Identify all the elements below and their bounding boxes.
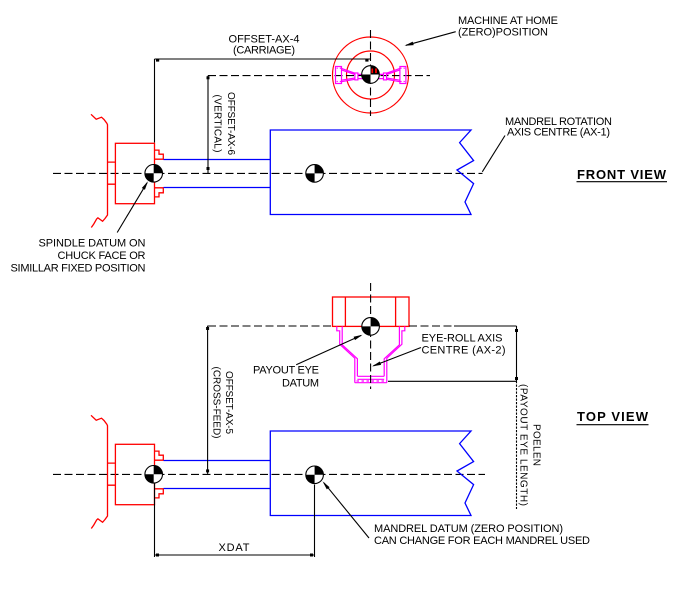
svg-text:(VERTICAL): (VERTICAL)	[212, 95, 223, 153]
payout eye horizontal centerline	[208, 75, 430, 77]
datum at payout eye centre (front)	[362, 66, 380, 84]
datum at chuck face (top)	[145, 466, 163, 484]
label OFFSET-AX-5 (CROSS-FEED) rotated	[223, 371, 234, 434]
leader payout eye datum	[296, 336, 361, 365]
svg-text:SIMILLAR FIXED POSITION: SIMILLAR FIXED POSITION	[11, 263, 146, 275]
svg-text:AXIS CENTRE (AX-1): AXIS CENTRE (AX-1)	[507, 127, 610, 139]
leader machine at home	[406, 32, 456, 46]
svg-text:OFFSET-AX-6: OFFSET-AX-6	[225, 92, 236, 155]
spindle axis centerline (front)	[53, 172, 483, 174]
svg-text:OFFSET-AX-5: OFFSET-AX-5	[223, 371, 234, 434]
payout eye funnel right (top view)	[384, 326, 405, 382]
spindle axis centerline (top)	[53, 473, 485, 475]
svg-text:EYE-ROLL AXIS: EYE-ROLL AXIS	[422, 333, 503, 345]
payout eye roller assembly right	[375, 67, 406, 84]
payout eye vertical centerline	[370, 30, 372, 116]
svg-text:CENTRE (AX-2): CENTRE (AX-2)	[422, 345, 506, 357]
svg-text:DATUM: DATUM	[282, 378, 319, 390]
svg-text:XDAT: XDAT	[219, 542, 250, 554]
svg-text:PAYOUT EYE: PAYOUT EYE	[253, 365, 319, 377]
datum at mandrel (front)	[306, 165, 324, 183]
payout eye circles (machine at home)	[333, 37, 409, 113]
POELEN bottom extension line	[388, 380, 517, 382]
payout eye funnel left (top view)	[337, 326, 358, 382]
svg-text:CAN CHANGE FOR EACH MANDREL US: CAN CHANGE FOR EACH MANDREL USED	[374, 535, 590, 547]
svg-text:CHUCK FACE OR: CHUCK FACE OR	[58, 250, 146, 262]
payout eye body (top view)	[333, 297, 410, 326]
svg-text:MANDREL DATUM (ZERO POSITION): MANDREL DATUM (ZERO POSITION)	[374, 523, 563, 535]
chuck, shaft and mandrel (top)	[91, 415, 474, 528]
svg-text:(CROSS-FEED): (CROSS-FEED)	[211, 367, 222, 439]
red guide marks at eye centre	[371, 69, 373, 74]
dimension POELEN line	[516, 326, 518, 381]
svg-text:SPINDLE DATUM ON: SPINDLE DATUM ON	[39, 238, 146, 250]
svg-text:TOP VIEW: TOP VIEW	[577, 409, 649, 424]
dimension OFFSET-AX-5 line	[207, 326, 209, 474]
svg-text:POELEN: POELEN	[531, 424, 542, 466]
svg-text:(ZERO)POSITION: (ZERO)POSITION	[458, 27, 548, 39]
dimension OFFSET-AX-4 line	[155, 58, 371, 60]
payout eye funnel bottom tray	[355, 376, 387, 382]
dimension OFFSET-AX-6 line	[207, 76, 209, 174]
label OFFSET-AX-6 (VERTICAL) rotated	[225, 92, 236, 155]
svg-text:MACHINE AT HOME: MACHINE AT HOME	[458, 15, 558, 27]
payout eye datum centerline (top)	[208, 325, 332, 327]
chuck, shaft and mandrel (front)	[91, 114, 474, 227]
leader mandrel rotation	[482, 136, 505, 172]
datum at payout eye (top)	[362, 318, 380, 336]
label POELEN (PAYOUT EYE LENGTH) rotated	[531, 424, 542, 466]
payout eye roller assembly left	[336, 67, 367, 84]
svg-text:(CARRIAGE): (CARRIAGE)	[233, 45, 295, 57]
dimension OFFSET-AX-4 extension line	[154, 59, 156, 143]
dimension XDAT line	[155, 554, 315, 556]
leader mandrel datum	[324, 483, 369, 538]
leader spindle datum	[117, 183, 147, 233]
datum at mandrel (top)	[306, 466, 324, 484]
svg-text:(PAYOUT EYE LENGTH): (PAYOUT EYE LENGTH)	[518, 384, 529, 506]
dimension XDAT extension lines	[155, 484, 315, 558]
payout eye vertical centerline (top)	[370, 283, 372, 389]
datum at chuck face (front)	[145, 165, 163, 183]
svg-text:FRONT VIEW: FRONT VIEW	[577, 167, 667, 182]
leader eye-roll axis	[374, 348, 422, 366]
